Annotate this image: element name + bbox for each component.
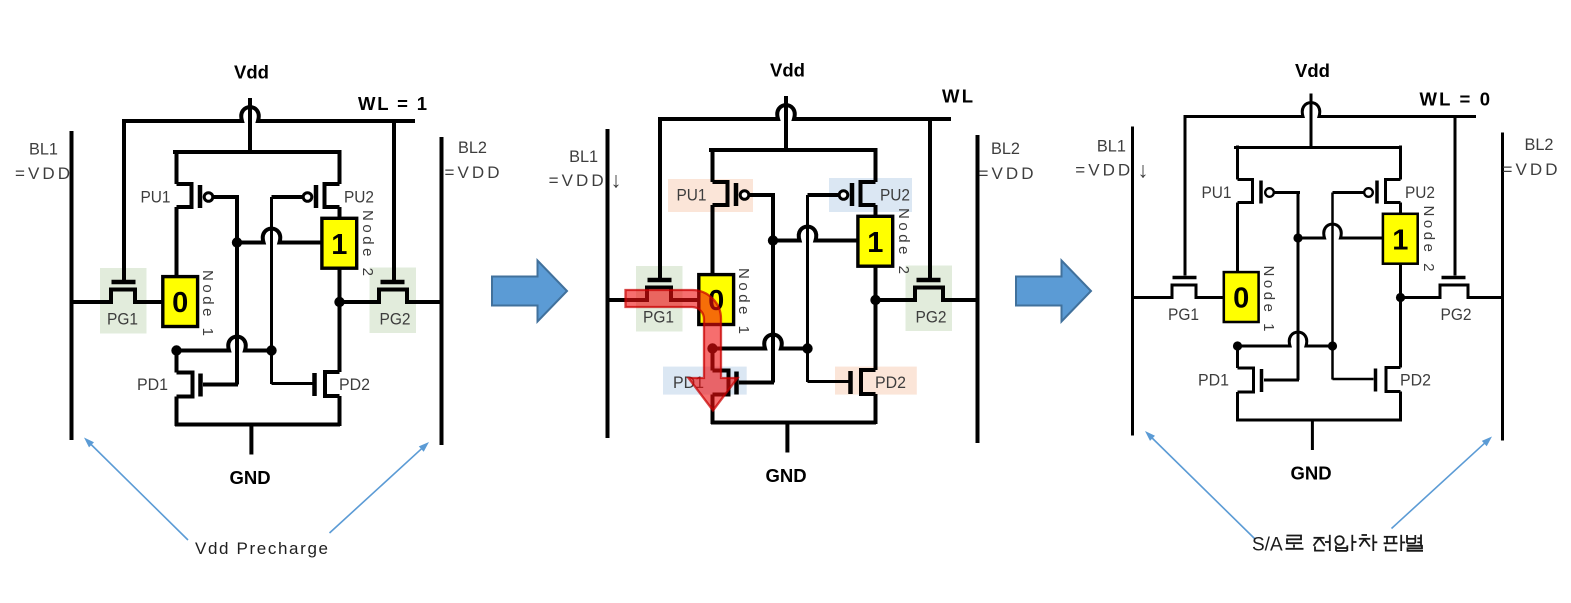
PD2 gate wire (panel 2) <box>808 380 849 383</box>
transistor PU1 (PMOS pull-up) (panel 3) <box>1238 146 1301 274</box>
word line WL with hop over Vdd stem, left drop to PG1 gate (panel 2) <box>660 105 951 278</box>
big blue arrow between panel 2 and 3 <box>1016 261 1091 322</box>
svg-text:PD2: PD2 <box>1400 371 1431 390</box>
annotation arrow to BL1 bottom (panel 3) <box>1151 437 1255 539</box>
transistor PD1 (NMOS pull-down) (panel 3) <box>1238 345 1262 422</box>
Node 1 value box '0' (panel 2) <box>699 275 734 325</box>
red read-current arrow (BL1 through PG1 into Node1 down to PD1) (panel 2) <box>626 290 738 411</box>
Vdd rail of inverter pair (panel 1) <box>173 150 341 154</box>
PG1 highlight box (panel 2) <box>636 266 683 332</box>
transistor PU2 (PMOS pull-up) (panel 2) <box>808 148 876 218</box>
junction dot on Node 1 (panel 2) <box>707 343 717 353</box>
svg-text:=VDD: =VDD <box>549 171 604 190</box>
Node 2 wire (panel 3) <box>1399 262 1402 368</box>
svg-text:BL2: BL2 <box>991 139 1020 158</box>
transistor PU1 (PMOS pull-up) (panel 2) <box>713 148 776 276</box>
bit line BL2 (panel 1) <box>440 137 444 445</box>
PG1 highlight box (panel 1) <box>100 268 147 334</box>
svg-text:PG1: PG1 <box>643 308 674 327</box>
junction dot on gate line 1 (panel 2) <box>768 235 778 245</box>
PD2 highlight box (panel 2) <box>835 367 917 395</box>
Node 2 value box '1' (panel 3) <box>1383 214 1418 264</box>
GND stem (panel 2) <box>785 423 789 453</box>
cross-couple wire from Node 2 to inverter-1 gates, hop over gate line 2 (panel 1) <box>237 229 341 243</box>
GND rail of inverter pair (panel 3) <box>1236 419 1401 422</box>
WL right drop to PG2 gate (panel 2) <box>928 119 932 278</box>
svg-text:0: 0 <box>1233 283 1249 315</box>
transistor PD2 (NMOS pull-down) (panel 2) <box>851 370 876 424</box>
transistor PU2 (PMOS pull-up) (panel 3) <box>1333 146 1401 216</box>
Node 2 value box '1' (panel 1) <box>322 218 357 268</box>
svg-text:PG1: PG1 <box>1168 305 1199 324</box>
WL right drop to PG2 gate (panel 3) <box>1454 117 1457 276</box>
svg-text:0: 0 <box>172 287 188 319</box>
svg-text:PG2: PG2 <box>916 308 947 327</box>
bit line BL1 (panel 1) <box>70 131 74 440</box>
svg-text:Vdd: Vdd <box>234 62 269 83</box>
Vdd rail of inverter pair (panel 3) <box>1234 146 1402 149</box>
gate line of inverter 1 (PU1/PD1 gates, node B wire) (panel 1) <box>235 197 239 385</box>
transistor PD2 (NMOS pull-down) (panel 1) <box>315 372 340 426</box>
svg-text:S/A: S/A <box>1252 535 1283 556</box>
svg-text:BL2: BL2 <box>458 138 487 157</box>
WL right drop to PG2 gate (panel 1) <box>392 121 396 280</box>
bit line BL2 (panel 3) <box>1501 133 1504 441</box>
svg-text:PG2: PG2 <box>380 310 411 329</box>
cross-couple wire from Node 1 to inverter-2 gates, hop over gate line 1 (panel 3) <box>1237 332 1333 346</box>
transistor PD2 (NMOS pull-down) (panel 3) <box>1376 368 1401 422</box>
svg-text:↓: ↓ <box>1138 158 1149 183</box>
svg-text:PU2: PU2 <box>1405 183 1435 202</box>
svg-text:Vdd Precharge: Vdd Precharge <box>195 539 328 558</box>
svg-text:PD2: PD2 <box>339 375 370 394</box>
Node 2 wire (panel 2) <box>874 264 878 370</box>
junction dot on gate line 1 (panel 1) <box>232 237 242 247</box>
svg-text:BL1: BL1 <box>1097 137 1126 156</box>
PD1 gate wire (panel 3) <box>1264 379 1299 382</box>
svg-text:GND: GND <box>1290 463 1331 484</box>
gate line of inverter 2 (PU2/PD2 gates) (panel 1) <box>270 197 273 384</box>
transistor PG2 (NMOS pass-gate) with BL2 wire (panel 3) <box>1401 278 1503 298</box>
annotation arrow to BL2 bottom (panel 3) <box>1392 442 1486 528</box>
svg-text:1: 1 <box>867 227 883 259</box>
transistor PG2 (NMOS pass-gate) with BL2 wire (panel 2) <box>876 280 978 300</box>
cross-couple wire from Node 1 to inverter-2 gates, hop over gate line 1 (panel 1) <box>176 337 272 351</box>
svg-text:PD1: PD1 <box>1198 371 1229 390</box>
GND stem (panel 3) <box>1311 420 1314 450</box>
PG2 highlight box (panel 2) <box>906 266 953 332</box>
bit line BL1 (panel 3) <box>1131 127 1134 436</box>
gate line of inverter 1 (PU1/PD1 gates, node B wire) (panel 3) <box>1297 193 1300 381</box>
GND rail of inverter pair (panel 2) <box>711 421 876 425</box>
Vdd supply stem (panel 1) <box>248 98 252 152</box>
junction dot on gate line 1 (panel 3) <box>1293 233 1302 242</box>
PU2 highlight box (panel 2) <box>829 178 912 212</box>
svg-text:WL: WL <box>942 86 973 107</box>
junction dot on Node 1 (panel 3) <box>1233 341 1242 350</box>
svg-text:↓: ↓ <box>611 168 622 193</box>
svg-text:PG2: PG2 <box>1441 305 1472 324</box>
Node 1 value box '0' (panel 1) <box>163 277 198 327</box>
word line WL with hop over Vdd stem, left drop to PG1 gate (panel 1) <box>124 107 415 280</box>
junction dot on gate line 2 (panel 2) <box>802 343 812 353</box>
svg-text:GND: GND <box>229 467 270 488</box>
svg-text:Vdd: Vdd <box>1295 60 1330 81</box>
svg-text:PU1: PU1 <box>141 188 171 207</box>
Node 2 value box '1' (panel 2) <box>858 216 893 266</box>
Vdd rail of inverter pair (panel 2) <box>709 148 877 152</box>
svg-text:GND: GND <box>765 465 806 486</box>
svg-text:PU2: PU2 <box>880 186 910 205</box>
svg-text:BL1: BL1 <box>569 147 598 166</box>
gate line of inverter 2 (PU2/PD2 gates) (panel 3) <box>1331 193 1334 380</box>
PD1 gate wire (panel 1) <box>203 383 238 387</box>
svg-text:PU1: PU1 <box>677 186 707 205</box>
PD2 gate wire (panel 3) <box>1333 378 1374 381</box>
transistor PG1 (NMOS pass-gate) with BL1 wire (panel 3) <box>1133 278 1242 298</box>
PD1 gate wire (panel 2) <box>739 381 774 385</box>
PG2 highlight box (panel 1) <box>370 268 417 334</box>
svg-text:=VDD: =VDD <box>979 164 1034 183</box>
transistor PG1 (NMOS pass-gate) with BL1 wire (panel 1) <box>72 282 181 302</box>
junction dot Node2/PG2 (panel 2) <box>870 295 880 305</box>
transistor PU1 (PMOS pull-up) (panel 1) <box>177 150 240 278</box>
svg-text:1: 1 <box>331 229 347 261</box>
cross-couple wire from Node 2 to inverter-1 gates, hop over gate line 2 (panel 2) <box>773 227 877 241</box>
transistor PD1 (NMOS pull-down) (panel 2) <box>713 347 737 424</box>
transistor PU2 (PMOS pull-up) (panel 1) <box>272 150 340 220</box>
svg-text:PG1: PG1 <box>107 310 138 329</box>
svg-text:WL = 0: WL = 0 <box>1420 88 1491 109</box>
svg-text:1: 1 <box>1392 224 1408 256</box>
junction dot on Node 1 (panel 1) <box>171 345 181 355</box>
Vdd supply stem (panel 3) <box>1310 94 1313 148</box>
bit line BL2 (panel 2) <box>976 135 980 443</box>
svg-text:=VDD: =VDD <box>1503 160 1558 179</box>
junction dot Node2/PG2 (panel 3) <box>1396 293 1405 302</box>
Node 2 wire (panel 1) <box>338 266 342 372</box>
svg-text:=VDD: =VDD <box>1075 161 1130 180</box>
svg-text:=VDD: =VDD <box>445 163 500 182</box>
annotation arrow to BL1 bottom (panel 1) <box>90 444 188 541</box>
PD2 gate wire (panel 1) <box>272 382 313 385</box>
junction dot Node2/PG2 (panel 1) <box>334 297 344 307</box>
svg-text:BL2: BL2 <box>1525 135 1554 154</box>
annotation arrow to BL2 bottom (panel 1) <box>330 448 423 533</box>
svg-text:=VDD: =VDD <box>15 164 70 183</box>
svg-text:BL1: BL1 <box>29 140 58 159</box>
big blue arrow between panel 1 and 2 <box>492 261 567 322</box>
svg-text:PU2: PU2 <box>344 188 374 207</box>
svg-text:PU1: PU1 <box>1202 183 1232 202</box>
svg-text:Vdd: Vdd <box>770 60 805 81</box>
junction dot on gate line 2 (panel 1) <box>266 345 276 355</box>
svg-text:WL = 1: WL = 1 <box>358 93 427 114</box>
svg-text:PD1: PD1 <box>137 375 168 394</box>
transistor PD1 (NMOS pull-down) (panel 1) <box>177 349 201 426</box>
Vdd supply stem (panel 2) <box>784 96 788 150</box>
svg-text:PD2: PD2 <box>875 373 906 392</box>
word line WL with hop over Vdd stem, left drop to PG1 gate (panel 3) <box>1185 103 1476 276</box>
PU1 highlight box (panel 2) <box>668 179 753 212</box>
cross-couple wire from Node 2 to inverter-1 gates, hop over gate line 2 (panel 3) <box>1298 224 1402 238</box>
bit line BL1 (panel 2) <box>606 129 610 438</box>
GND rail of inverter pair (panel 1) <box>175 423 340 427</box>
PD1 highlight box (panel 2) <box>663 367 747 395</box>
cross-couple wire from Node 1 to inverter-2 gates, hop over gate line 1 (panel 2) <box>712 335 808 349</box>
transistor PG1 (NMOS pass-gate) with BL1 wire (panel 2) <box>608 280 717 300</box>
GND stem (panel 1) <box>249 425 253 455</box>
gate line of inverter 1 (PU1/PD1 gates, node B wire) (panel 2) <box>771 195 775 383</box>
junction dot on gate line 2 (panel 3) <box>1328 341 1337 350</box>
Node 1 value box '0' (panel 3) <box>1224 272 1259 322</box>
transistor PG2 (NMOS pass-gate) with BL2 wire (panel 1) <box>340 282 442 302</box>
gate line of inverter 2 (PU2/PD2 gates) (panel 2) <box>806 195 809 382</box>
